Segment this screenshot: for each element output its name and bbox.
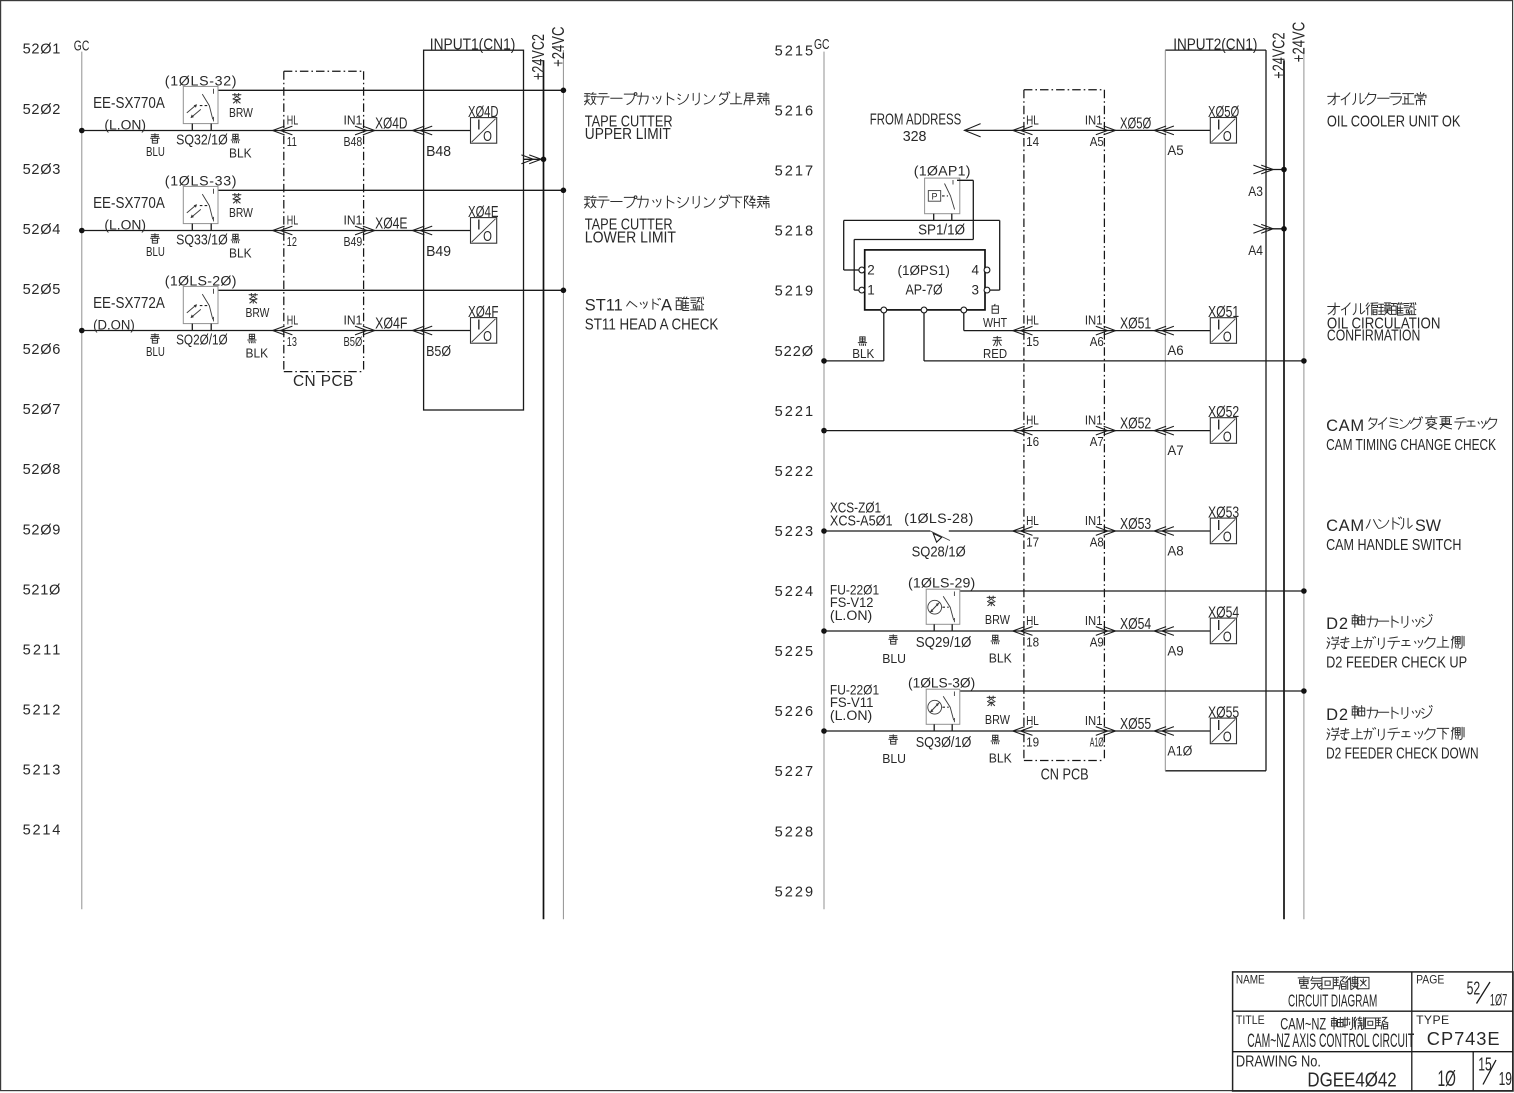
svg-text:(1ØLS-2Ø): (1ØLS-2Ø) — [165, 274, 237, 290]
svg-text:XØ51: XØ51 — [1208, 304, 1239, 321]
svg-text:IN1: IN1 — [1085, 313, 1103, 328]
svg-text:SQ28/1Ø: SQ28/1Ø — [912, 544, 966, 560]
svg-text:IN1: IN1 — [1085, 413, 1103, 428]
svg-text:52Ø7: 52Ø7 — [23, 402, 61, 418]
svg-text:XØ52: XØ52 — [1208, 404, 1239, 421]
svg-text:BLU: BLU — [882, 651, 906, 666]
svg-text:A9: A9 — [1090, 635, 1104, 650]
svg-text:EE-SX772A: EE-SX772A — [93, 295, 165, 312]
svg-text:IN1: IN1 — [344, 113, 363, 128]
svg-text:DGEE4Ø42: DGEE4Ø42 — [1307, 1070, 1396, 1092]
svg-text:BLK: BLK — [229, 245, 252, 260]
svg-text:B49: B49 — [344, 234, 363, 249]
svg-text:5214: 5214 — [23, 823, 61, 839]
svg-text:52Ø4: 52Ø4 — [23, 222, 61, 238]
svg-text:(1ØLS-32): (1ØLS-32) — [165, 74, 237, 90]
svg-text:B49: B49 — [426, 244, 451, 260]
svg-text:CP743E: CP743E — [1427, 1028, 1500, 1049]
svg-text:O: O — [1223, 729, 1232, 746]
svg-text:3: 3 — [972, 283, 980, 298]
svg-text:O: O — [1223, 328, 1232, 345]
svg-text:B5Ø: B5Ø — [426, 344, 451, 360]
svg-text:A: A — [661, 296, 672, 314]
svg-text:HL: HL — [287, 313, 298, 328]
svg-text:XØ4D: XØ4D — [375, 116, 407, 133]
svg-text:XØ4E: XØ4E — [375, 216, 407, 233]
svg-text:A9: A9 — [1167, 644, 1183, 659]
svg-text:A5: A5 — [1090, 134, 1104, 149]
svg-text:52: 52 — [1467, 978, 1481, 999]
svg-text:CIRCUIT DIAGRAM: CIRCUIT DIAGRAM — [1288, 990, 1377, 1010]
svg-text:XØ53: XØ53 — [1120, 516, 1151, 533]
svg-text:B48: B48 — [344, 134, 363, 149]
svg-text:XCS-A5Ø1: XCS-A5Ø1 — [830, 513, 893, 529]
svg-text:LOWER LIMIT: LOWER LIMIT — [585, 229, 676, 246]
svg-text:BRW: BRW — [985, 612, 1011, 627]
svg-text:O: O — [1223, 529, 1232, 546]
svg-text:A4: A4 — [1248, 243, 1263, 258]
svg-text:BLK: BLK — [989, 751, 1013, 766]
svg-text:52Ø6: 52Ø6 — [23, 342, 61, 358]
svg-text:SQ3Ø/1Ø: SQ3Ø/1Ø — [916, 735, 972, 751]
svg-text:HL: HL — [1026, 313, 1039, 328]
svg-text:52Ø1: 52Ø1 — [23, 42, 61, 58]
svg-text:A7: A7 — [1090, 434, 1104, 449]
svg-text:SQ29/1Ø: SQ29/1Ø — [916, 635, 972, 651]
svg-text:XØ4F: XØ4F — [375, 316, 408, 333]
svg-text:+24VC2: +24VC2 — [1268, 32, 1288, 78]
svg-text:CAM HANDLE SWITCH: CAM HANDLE SWITCH — [1326, 537, 1461, 554]
svg-text:O: O — [483, 128, 492, 145]
svg-text:11: 11 — [287, 134, 297, 149]
svg-text:+24VC: +24VC — [548, 27, 568, 67]
svg-text:O: O — [1223, 128, 1232, 145]
svg-text:IN1: IN1 — [1085, 613, 1103, 628]
svg-text:(1ØLS-29): (1ØLS-29) — [908, 576, 975, 592]
svg-text:HL: HL — [1026, 713, 1039, 728]
svg-text:17: 17 — [1026, 535, 1039, 550]
svg-text:BLK: BLK — [989, 651, 1013, 666]
svg-text:BLK: BLK — [852, 346, 875, 361]
svg-text:CAM: CAM — [1326, 517, 1364, 535]
svg-text:SQ33/1Ø: SQ33/1Ø — [176, 233, 228, 249]
svg-text:5213: 5213 — [23, 763, 61, 779]
svg-text:P: P — [932, 191, 938, 202]
svg-text:NAME: NAME — [1236, 972, 1265, 986]
svg-text:328: 328 — [903, 129, 927, 145]
svg-text:19: 19 — [1026, 735, 1039, 750]
svg-text:XØ54: XØ54 — [1208, 604, 1239, 621]
svg-text:1: 1 — [867, 283, 875, 298]
svg-text:WHT: WHT — [983, 315, 1007, 330]
svg-text:AP-7Ø: AP-7Ø — [906, 282, 943, 298]
svg-text:XØ53: XØ53 — [1208, 504, 1239, 521]
svg-text:A7: A7 — [1167, 443, 1183, 458]
svg-text:OIL COOLER UNIT OK: OIL COOLER UNIT OK — [1327, 113, 1461, 130]
svg-text:D2: D2 — [1326, 706, 1348, 724]
svg-text:SW: SW — [1415, 517, 1441, 535]
svg-text:13: 13 — [287, 334, 297, 349]
svg-text:522Ø: 522Ø — [775, 344, 814, 360]
svg-text:O: O — [483, 328, 492, 345]
svg-text:BLK: BLK — [246, 345, 269, 360]
svg-text:HL: HL — [287, 213, 298, 228]
svg-text:(L.ON): (L.ON) — [830, 708, 872, 724]
svg-text:B48: B48 — [426, 144, 451, 160]
svg-text:A6: A6 — [1167, 343, 1183, 358]
svg-text:A1Ø: A1Ø — [1090, 735, 1104, 750]
svg-text:521Ø: 521Ø — [23, 582, 61, 598]
svg-text:12: 12 — [287, 234, 297, 249]
svg-text:5212: 5212 — [23, 703, 61, 719]
svg-text:BLU: BLU — [146, 244, 165, 259]
svg-text:BRW: BRW — [229, 105, 254, 120]
svg-text:BRW: BRW — [985, 712, 1011, 727]
svg-text:A5: A5 — [1167, 143, 1183, 158]
svg-text:HL: HL — [1026, 513, 1039, 528]
svg-text:52Ø8: 52Ø8 — [23, 462, 61, 478]
svg-text:O: O — [1223, 428, 1232, 445]
svg-text:(1ØPS1): (1ØPS1) — [898, 263, 950, 279]
svg-text:(1ØLS-3Ø): (1ØLS-3Ø) — [908, 676, 975, 692]
svg-text:IN1: IN1 — [344, 213, 363, 228]
svg-text:4: 4 — [972, 263, 980, 278]
svg-text:O: O — [483, 228, 492, 245]
svg-text:BLU: BLU — [146, 144, 165, 159]
svg-text:XØ4F: XØ4F — [468, 304, 499, 321]
svg-text:52Ø3: 52Ø3 — [23, 162, 61, 178]
svg-text:1Ø7: 1Ø7 — [1490, 990, 1507, 1009]
svg-text:XØ51: XØ51 — [1120, 316, 1151, 333]
svg-text:HL: HL — [287, 113, 298, 128]
svg-text:IN1: IN1 — [1085, 713, 1103, 728]
svg-text:A1Ø: A1Ø — [1167, 744, 1192, 759]
svg-text:(1ØLS-28): (1ØLS-28) — [904, 511, 973, 527]
svg-text:HL: HL — [1026, 613, 1039, 628]
svg-text:O: O — [1223, 629, 1232, 646]
svg-text:+24VC: +24VC — [1288, 22, 1308, 62]
svg-text:GC: GC — [814, 36, 830, 53]
svg-text:IN1: IN1 — [1085, 113, 1103, 128]
svg-text:ST11: ST11 — [585, 296, 623, 314]
svg-text:EE-SX770A: EE-SX770A — [93, 195, 165, 212]
svg-text:TYPE: TYPE — [1416, 1013, 1449, 1027]
svg-text:D2: D2 — [1326, 615, 1348, 633]
svg-text:XØ55: XØ55 — [1120, 716, 1151, 733]
svg-text:INPUT2(CN1): INPUT2(CN1) — [1173, 36, 1257, 53]
svg-text:BRW: BRW — [246, 305, 271, 320]
svg-text:BRW: BRW — [229, 205, 254, 220]
svg-text:15: 15 — [1026, 334, 1039, 349]
svg-text:IN1: IN1 — [344, 313, 363, 328]
svg-text:(L.ON): (L.ON) — [104, 217, 146, 233]
svg-text:EE-SX770A: EE-SX770A — [93, 95, 165, 112]
svg-text:DRAWING No.: DRAWING No. — [1236, 1054, 1321, 1071]
svg-text:52Ø9: 52Ø9 — [23, 522, 61, 538]
svg-text:TITLE: TITLE — [1236, 1013, 1265, 1027]
svg-text:HL: HL — [1026, 413, 1039, 428]
svg-text:BLU: BLU — [146, 344, 165, 359]
svg-text:(L.ON): (L.ON) — [830, 608, 872, 624]
svg-text:CN PCB: CN PCB — [1041, 766, 1089, 783]
svg-text:A8: A8 — [1167, 544, 1183, 559]
svg-text:BLK: BLK — [229, 145, 252, 160]
svg-text:IN1: IN1 — [1085, 513, 1103, 528]
svg-text:19: 19 — [1499, 1068, 1512, 1089]
svg-text:52Ø2: 52Ø2 — [23, 102, 61, 118]
svg-text:(L.ON): (L.ON) — [104, 117, 146, 133]
svg-text:B5Ø: B5Ø — [344, 334, 363, 349]
svg-text:XØ4D: XØ4D — [468, 104, 499, 121]
svg-text:CAM~NZ AXIS CONTROL CIRCUIT: CAM~NZ AXIS CONTROL CIRCUIT — [1247, 1030, 1414, 1052]
svg-text:XØ54: XØ54 — [1120, 616, 1151, 633]
svg-text:SQ2Ø/1Ø: SQ2Ø/1Ø — [176, 333, 228, 349]
svg-text:52Ø5: 52Ø5 — [23, 282, 61, 298]
svg-text:14: 14 — [1026, 134, 1039, 149]
svg-text:1Ø: 1Ø — [1438, 1066, 1456, 1091]
svg-text:XØ5Ø: XØ5Ø — [1208, 104, 1239, 121]
svg-text:D2 FEEDER CHECK DOWN: D2 FEEDER CHECK DOWN — [1326, 746, 1479, 763]
svg-text:FROM ADDRESS: FROM ADDRESS — [870, 111, 962, 128]
svg-text:ST11 HEAD A CHECK: ST11 HEAD A CHECK — [585, 316, 719, 333]
svg-text:XØ55: XØ55 — [1208, 704, 1239, 721]
svg-text:2: 2 — [867, 263, 875, 278]
svg-text:D2 FEEDER CHECK UP: D2 FEEDER CHECK UP — [1326, 655, 1467, 672]
svg-text:UPPER LIMIT: UPPER LIMIT — [585, 126, 671, 143]
svg-text:XØ5Ø: XØ5Ø — [1120, 115, 1151, 132]
svg-text:CONFIRMATION: CONFIRMATION — [1327, 327, 1420, 344]
svg-text:18: 18 — [1026, 635, 1039, 650]
svg-text:CN PCB: CN PCB — [293, 373, 353, 390]
svg-text:A8: A8 — [1090, 535, 1104, 550]
svg-text:SQ32/1Ø: SQ32/1Ø — [176, 133, 228, 149]
svg-text:(1ØAP1): (1ØAP1) — [914, 164, 971, 180]
svg-text:A3: A3 — [1248, 184, 1263, 199]
svg-text:(1ØLS-33): (1ØLS-33) — [165, 174, 237, 190]
svg-text:A6: A6 — [1090, 334, 1104, 349]
svg-text:RED: RED — [983, 346, 1007, 361]
svg-text:XØ52: XØ52 — [1120, 416, 1151, 433]
svg-text:INPUT1(CN1): INPUT1(CN1) — [430, 36, 516, 53]
svg-text:HL: HL — [1026, 113, 1039, 128]
svg-text:CAM: CAM — [1326, 417, 1364, 435]
svg-text:(D.ON): (D.ON) — [93, 317, 135, 333]
svg-text:+24VC2: +24VC2 — [528, 34, 548, 80]
svg-text:PAGE: PAGE — [1416, 972, 1444, 986]
svg-text:16: 16 — [1026, 434, 1039, 449]
svg-text:CAM TIMING CHANGE CHECK: CAM TIMING CHANGE CHECK — [1326, 437, 1496, 454]
svg-text:XØ4E: XØ4E — [468, 204, 499, 221]
svg-text:BLU: BLU — [882, 751, 906, 766]
svg-text:SP1/1Ø: SP1/1Ø — [918, 222, 965, 238]
